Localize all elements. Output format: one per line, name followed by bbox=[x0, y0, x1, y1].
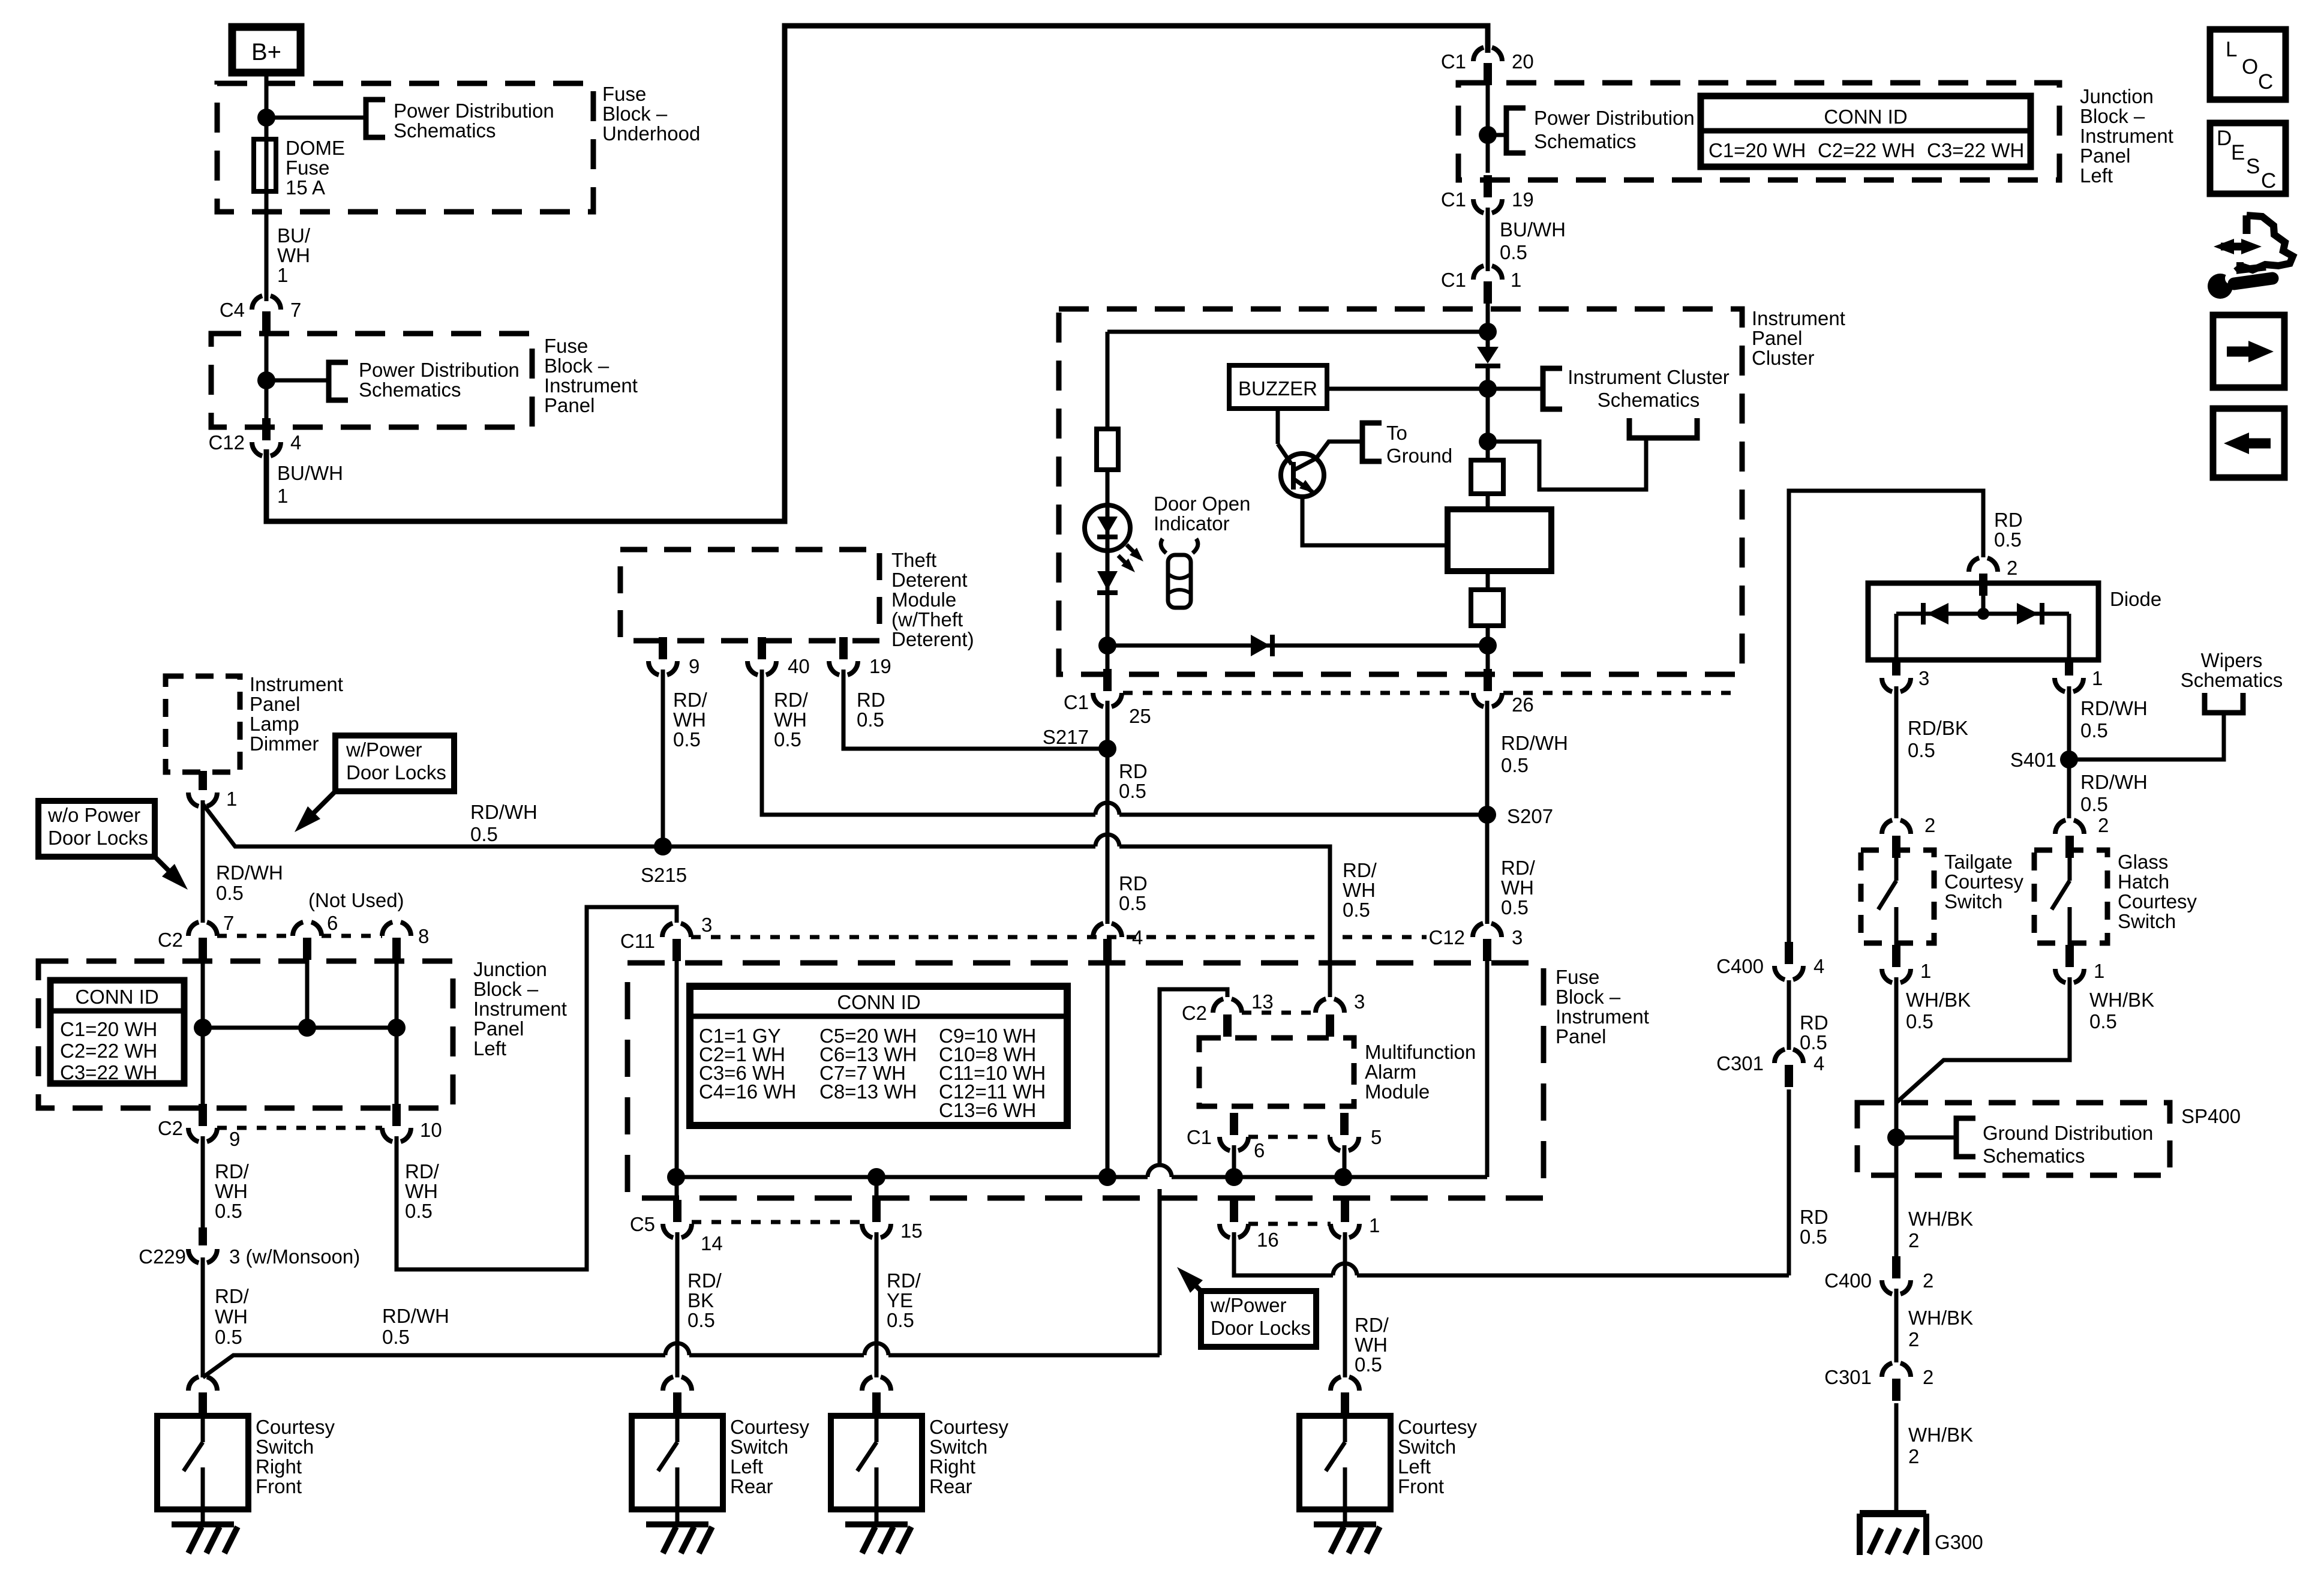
svg-text:C1=20 WH: C1=20 WH bbox=[1709, 139, 1806, 161]
connector pin 10 bbox=[382, 1128, 411, 1142]
svg-text:C3=22 WH: C3=22 WH bbox=[1927, 139, 2024, 161]
back arrow icon box bbox=[2213, 409, 2284, 478]
svg-text:C13=6 WH: C13=6 WH bbox=[939, 1099, 1036, 1121]
svg-text:C400: C400 bbox=[1824, 1269, 1872, 1292]
svg-text:19: 19 bbox=[869, 655, 891, 677]
svg-text:Switch: Switch bbox=[730, 1436, 788, 1458]
reference bracket instrument cluster schematics bbox=[1543, 368, 1562, 409]
svg-text:Junction: Junction bbox=[2080, 85, 2154, 107]
wire diode-3 to tailgate switch bbox=[1894, 686, 1899, 818]
wire hop over pin13 riser bbox=[1148, 1165, 1172, 1177]
callout w/o Power Door Locks bbox=[38, 801, 155, 857]
cluster bottom internal wire bbox=[1107, 644, 1488, 648]
svg-text:Dimmer: Dimmer bbox=[250, 733, 319, 755]
svg-text:Switch: Switch bbox=[929, 1436, 987, 1458]
svg-text:4: 4 bbox=[290, 431, 301, 454]
wire to power distribution reference bbox=[266, 116, 366, 120]
cluster main vertical wire bbox=[1486, 304, 1490, 347]
bracket under instrument cluster schematics bbox=[1629, 418, 1697, 438]
svg-text:Lamp: Lamp bbox=[250, 713, 299, 735]
connector pin 15 bbox=[862, 1224, 891, 1238]
svg-text:40: 40 bbox=[788, 655, 810, 677]
svg-text:Panel: Panel bbox=[1556, 1025, 1606, 1047]
svg-text:DOME: DOME bbox=[286, 137, 345, 159]
connector C1 pin 20 bbox=[1473, 47, 1502, 61]
svg-text:C2=22 WH: C2=22 WH bbox=[1818, 139, 1915, 161]
resistor square lower (cluster) bbox=[1471, 590, 1503, 626]
svg-text:WH: WH bbox=[1501, 876, 1534, 899]
svg-text:2: 2 bbox=[2007, 557, 2017, 579]
svg-text:RD/: RD/ bbox=[1355, 1314, 1389, 1336]
connector C400 pin 4 bbox=[1774, 966, 1803, 980]
svg-text:Door Locks: Door Locks bbox=[346, 761, 446, 784]
svg-text:1: 1 bbox=[2094, 960, 2104, 982]
svg-text:RD/WH: RD/WH bbox=[1501, 732, 1568, 754]
svg-text:Module: Module bbox=[891, 589, 956, 611]
wire row to pin 15 bbox=[875, 1177, 879, 1198]
svg-text:RD/: RD/ bbox=[405, 1160, 440, 1182]
battery feed B+ bbox=[232, 27, 301, 73]
callout w/Power Door Locks (left) bbox=[335, 736, 454, 791]
svg-text:BU/WH: BU/WH bbox=[1500, 218, 1566, 241]
svg-text:RD/: RD/ bbox=[215, 1160, 250, 1182]
svg-text:RD/: RD/ bbox=[687, 1269, 722, 1292]
svg-text:Block –: Block – bbox=[544, 355, 609, 377]
svg-text:0.5: 0.5 bbox=[1119, 780, 1146, 802]
svg-text:BU/WH: BU/WH bbox=[277, 462, 343, 484]
svg-text:16: 16 bbox=[1257, 1229, 1279, 1251]
svg-text:1: 1 bbox=[1920, 960, 1931, 982]
wire C11-3 down bbox=[675, 961, 679, 1198]
svg-text:Door Locks: Door Locks bbox=[48, 827, 148, 849]
junction in fuse block IP bbox=[257, 371, 275, 389]
connector row dotted 16-1 bbox=[1248, 1222, 1331, 1226]
svg-text:RD/WH: RD/WH bbox=[2080, 771, 2148, 793]
long RD/WH wire from dimmer to S215 and alarm module pin 3 bbox=[203, 804, 1095, 846]
junction to cluster schematics net bbox=[1479, 433, 1497, 451]
wire hop over right-rear drop bbox=[864, 1343, 888, 1355]
svg-text:S217: S217 bbox=[1043, 726, 1089, 748]
svg-text:C3=22 WH: C3=22 WH bbox=[60, 1061, 157, 1083]
svg-text:14: 14 bbox=[701, 1232, 723, 1254]
BUZZER box bbox=[1229, 365, 1327, 409]
arrowhead w/PDL right bbox=[1177, 1267, 1203, 1293]
resistor square upper (cluster) bbox=[1471, 460, 1503, 494]
svg-text:26: 26 bbox=[1512, 694, 1534, 716]
transistor (buzzer driver) bbox=[1276, 409, 1280, 444]
connector C2 pin 13 (module) bbox=[1213, 998, 1242, 1013]
svg-text:Fuse: Fuse bbox=[602, 83, 646, 105]
wire C1-25 to connector 4 bbox=[1106, 701, 1110, 924]
svg-text:WH: WH bbox=[673, 709, 706, 731]
svg-text:Block –: Block – bbox=[473, 978, 539, 1000]
svg-text:9: 9 bbox=[229, 1128, 240, 1150]
svg-text:Module: Module bbox=[1365, 1080, 1430, 1103]
svg-text:Courtesy: Courtesy bbox=[1398, 1416, 1478, 1438]
svg-text:3 (w/Monsoon): 3 (w/Monsoon) bbox=[229, 1245, 360, 1268]
svg-text:0.5: 0.5 bbox=[215, 1200, 242, 1222]
svg-text:WH: WH bbox=[774, 709, 807, 731]
connector glass hatch switch pin 2 bbox=[2055, 819, 2084, 834]
wire RD 0.5 riser to diode pin 2 bbox=[1789, 491, 1983, 942]
svg-text:WH/BK: WH/BK bbox=[1908, 1424, 1973, 1446]
svg-text:C1: C1 bbox=[1441, 50, 1466, 73]
diode assembly box bbox=[1868, 583, 2098, 660]
svg-text:CONN ID: CONN ID bbox=[75, 986, 158, 1008]
svg-text:6: 6 bbox=[1254, 1139, 1265, 1161]
connector C301 pin 2 bbox=[1882, 1362, 1911, 1377]
junction inside diode box bbox=[1977, 608, 1989, 620]
svg-text:4: 4 bbox=[1132, 926, 1143, 948]
svg-text:RD/WH: RD/WH bbox=[470, 801, 538, 823]
svg-text:15: 15 bbox=[900, 1220, 923, 1242]
svg-text:RD/: RD/ bbox=[673, 689, 708, 711]
svg-text:1: 1 bbox=[277, 264, 288, 286]
arrowhead w/PDL left bbox=[295, 806, 320, 832]
svg-text:3: 3 bbox=[1512, 926, 1523, 948]
svg-text:C229: C229 bbox=[139, 1245, 186, 1268]
junction pin15 / row bbox=[867, 1168, 885, 1186]
svg-text:RD: RD bbox=[1119, 872, 1148, 894]
svg-text:7: 7 bbox=[290, 299, 301, 321]
junction cluster top bbox=[1479, 323, 1497, 341]
svg-text:3: 3 bbox=[1354, 990, 1365, 1013]
connector C229 pin 3 bbox=[188, 1249, 217, 1263]
connector pin 9 (theft module) bbox=[648, 661, 677, 676]
svg-text:C12: C12 bbox=[1428, 926, 1465, 948]
svg-text:0.5: 0.5 bbox=[1994, 529, 2022, 551]
wire through fuse block IP bbox=[265, 334, 269, 427]
svg-text:D: D bbox=[2217, 127, 2232, 150]
svg-text:0.5: 0.5 bbox=[1800, 1226, 1827, 1248]
svg-text:WH: WH bbox=[1343, 879, 1376, 901]
connector row dotted line 7-6 bbox=[217, 934, 293, 938]
svg-text:1: 1 bbox=[1369, 1214, 1380, 1236]
connector row dotted line 6-8 bbox=[322, 934, 382, 938]
splice S207 bbox=[1478, 806, 1496, 824]
CONN ID table (fuse block) bbox=[690, 986, 1067, 1125]
svg-text:WH/BK: WH/BK bbox=[1908, 1208, 1973, 1230]
courtesy switch right front bbox=[157, 1416, 248, 1509]
wire SP400 to C400-2 bbox=[1894, 1175, 1899, 1257]
connector C1 pin 26 bbox=[1473, 693, 1502, 707]
connector glass hatch switch pin 1 bbox=[2055, 969, 2084, 983]
svg-text:Left: Left bbox=[1398, 1455, 1431, 1478]
svg-text:3: 3 bbox=[701, 914, 712, 936]
wire transistor collector bbox=[1302, 497, 1448, 545]
svg-text:25: 25 bbox=[1129, 705, 1151, 727]
connector C1 pin 6 (module) bbox=[1220, 1137, 1248, 1151]
wire C12-3 down bbox=[1485, 961, 1490, 1177]
svg-text:Instrument: Instrument bbox=[1752, 307, 1845, 329]
connector courtesy switch left front bbox=[1331, 1376, 1359, 1391]
svg-text:4: 4 bbox=[1813, 955, 1824, 977]
svg-text:CONN ID: CONN ID bbox=[837, 991, 920, 1013]
wire BU/WH 0.5 bbox=[1486, 208, 1490, 271]
diode (cluster bottom, pointing right) bbox=[1251, 635, 1270, 656]
wire RD/WH pin40 to S207 (right) bbox=[1119, 813, 1487, 817]
connector C2 pin 8 bbox=[382, 921, 411, 936]
wire RD/WH pin9 to S215 bbox=[661, 670, 665, 846]
svg-text:Instrument: Instrument bbox=[473, 998, 567, 1020]
svg-text:To: To bbox=[1386, 422, 1407, 444]
wire RD between C301-4 and C400-4 bbox=[1787, 980, 1791, 1050]
svg-text:WH: WH bbox=[1355, 1334, 1388, 1356]
svg-text:0.5: 0.5 bbox=[1501, 754, 1529, 776]
wire to ground distribution ref bbox=[1896, 1136, 1954, 1140]
svg-text:0.5: 0.5 bbox=[673, 728, 701, 751]
svg-text:Left: Left bbox=[730, 1455, 763, 1478]
svg-text:Deterent): Deterent) bbox=[891, 628, 974, 650]
connector pin 1 (dimmer) bbox=[188, 792, 217, 807]
svg-text:0.5: 0.5 bbox=[1500, 241, 1527, 263]
svg-text:0.5: 0.5 bbox=[887, 1309, 914, 1331]
junction in junction block IP left bbox=[1479, 126, 1497, 144]
svg-text:Indicator: Indicator bbox=[1154, 512, 1230, 535]
svg-text:2: 2 bbox=[1923, 1269, 1933, 1292]
svg-text:Schematics: Schematics bbox=[1534, 130, 1637, 152]
svg-text:WH/BK: WH/BK bbox=[2089, 989, 2154, 1011]
svg-text:2: 2 bbox=[1924, 814, 1935, 836]
svg-text:7: 7 bbox=[223, 912, 234, 934]
connector courtesy switch right front bbox=[188, 1376, 217, 1391]
fuse block instrument panel (main) box bbox=[627, 963, 1544, 1198]
svg-text:L: L bbox=[2226, 38, 2237, 61]
svg-text:Glass: Glass bbox=[2118, 851, 2168, 873]
svg-text:Block –: Block – bbox=[602, 103, 668, 125]
svg-text:G300: G300 bbox=[1935, 1531, 1983, 1553]
diode (cluster top) bbox=[1477, 347, 1499, 364]
svg-text:Courtesy: Courtesy bbox=[730, 1416, 810, 1438]
junction cluster bottom right bbox=[1479, 637, 1497, 655]
wire hop over C1-25 branch (S215 line) bbox=[1095, 834, 1119, 846]
svg-text:10: 10 bbox=[420, 1119, 442, 1141]
svg-text:2: 2 bbox=[1908, 1445, 1919, 1467]
svg-text:20: 20 bbox=[1512, 50, 1534, 73]
svg-text:BK: BK bbox=[687, 1289, 714, 1311]
svg-text:Tailgate: Tailgate bbox=[1944, 851, 2013, 873]
ground G300 bbox=[1860, 1510, 1926, 1517]
wire riser to diode assembly bbox=[1787, 1089, 1791, 1275]
svg-text:C301: C301 bbox=[1716, 1052, 1764, 1074]
wire pin1 to courtesy switch left front bbox=[1343, 1232, 1347, 1377]
wire S215 line to alarm module pin 3 bbox=[1119, 846, 1330, 997]
wire to instrument cluster schematics bbox=[1488, 387, 1541, 391]
svg-text:C4: C4 bbox=[220, 299, 245, 321]
svg-text:C4=16 WH: C4=16 WH bbox=[699, 1080, 796, 1103]
connector C2 pin 7 bbox=[188, 921, 217, 936]
svg-text:Wipers: Wipers bbox=[2201, 649, 2263, 671]
svg-text:RD: RD bbox=[1800, 1011, 1828, 1034]
svg-text:2: 2 bbox=[1908, 1229, 1919, 1251]
splice S401 bbox=[2060, 751, 2078, 769]
connector row dotted line 9-10 bbox=[217, 1126, 382, 1130]
CONN ID table (junction block lower) bbox=[50, 980, 184, 1083]
splice package SP400 box bbox=[1857, 1103, 2170, 1175]
LED arrows bbox=[1127, 545, 1140, 558]
connector pin 19 (theft module) bbox=[829, 661, 858, 676]
svg-text:Switch: Switch bbox=[2118, 910, 2176, 932]
svg-text:BU/: BU/ bbox=[277, 224, 311, 247]
reference bracket to ground bbox=[1362, 423, 1382, 461]
wire hop over C1-25 branch bbox=[1095, 803, 1119, 815]
svg-text:Fuse: Fuse bbox=[1556, 966, 1599, 988]
connector row C11-3 / 4 / C12-3 (dotted) bbox=[691, 935, 1317, 939]
connector C301 pin 4 bbox=[1774, 1049, 1803, 1063]
connector courtesy switch right rear bbox=[862, 1376, 891, 1391]
CONN ID table (junction block) bbox=[1701, 96, 2031, 167]
forward arrow icon box bbox=[2213, 315, 2284, 388]
junction pin4 / row bbox=[1098, 1168, 1116, 1186]
svg-text:Schematics: Schematics bbox=[1598, 389, 1700, 411]
svg-text:Schematics: Schematics bbox=[2181, 669, 2283, 691]
svg-text:C12: C12 bbox=[208, 431, 245, 454]
instrument panel lamp dimmer box bbox=[166, 676, 240, 772]
svg-text:0.5: 0.5 bbox=[1908, 739, 1935, 761]
svg-text:WH: WH bbox=[215, 1180, 248, 1202]
relay rectangle (cluster) bbox=[1448, 509, 1551, 571]
svg-text:C301: C301 bbox=[1824, 1366, 1872, 1388]
wire pin5 to splice row bbox=[1343, 1145, 1347, 1177]
fuse block instrument panel box bbox=[211, 334, 532, 427]
svg-text:0.5: 0.5 bbox=[405, 1200, 433, 1222]
svg-text:Instrument: Instrument bbox=[544, 374, 638, 397]
fuse block underhood box bbox=[217, 83, 593, 212]
wire glass hatch joining tailgate wire bbox=[1896, 977, 2070, 1103]
wire C1-26 to connector C12-3 bbox=[1485, 701, 1490, 924]
svg-text:0.5: 0.5 bbox=[2080, 719, 2108, 742]
wire S401 to wipers schematics bbox=[2069, 713, 2224, 760]
reference bracket power distribution (underhood) bbox=[366, 100, 385, 137]
svg-text:WH/BK: WH/BK bbox=[1908, 1307, 1973, 1329]
svg-text:0.5: 0.5 bbox=[687, 1309, 715, 1331]
svg-text:Door Open: Door Open bbox=[1154, 493, 1250, 515]
junction cluster bottom left bbox=[1098, 637, 1116, 655]
junction SP400 bbox=[1887, 1128, 1905, 1146]
junction block internal wires bbox=[201, 960, 205, 1106]
junction pin5 / row bbox=[1334, 1168, 1352, 1186]
svg-text:BUZZER: BUZZER bbox=[1238, 377, 1317, 400]
svg-text:C1: C1 bbox=[1441, 269, 1466, 291]
connector C4 pin 7 bbox=[252, 295, 281, 310]
svg-text:Panel: Panel bbox=[250, 693, 300, 715]
connector C400 pin 2 bbox=[1882, 1280, 1911, 1295]
svg-text:S215: S215 bbox=[641, 864, 687, 886]
junction block instrument panel left (lower) box bbox=[38, 961, 453, 1108]
svg-text:Instrument: Instrument bbox=[250, 673, 343, 695]
callout w/Power Door Locks (right) bbox=[1201, 1291, 1316, 1347]
svg-text:15 A: 15 A bbox=[286, 176, 325, 199]
svg-text:O: O bbox=[2242, 55, 2258, 79]
svg-text:WH: WH bbox=[277, 244, 310, 266]
wire pin6 to splice row bbox=[1232, 1145, 1236, 1177]
svg-text:S207: S207 bbox=[1507, 805, 1553, 827]
splice S217 bbox=[1098, 740, 1116, 758]
wire buzzer to main bbox=[1327, 387, 1488, 391]
connector pin 5 (module) bbox=[1330, 1137, 1359, 1151]
wire pin14 to courtesy switch left rear bbox=[675, 1232, 680, 1377]
svg-text:CONN ID: CONN ID bbox=[1824, 106, 1907, 128]
svg-text:2: 2 bbox=[1908, 1328, 1919, 1350]
connector C1 pin 25 bbox=[1093, 693, 1122, 707]
svg-text:RD/: RD/ bbox=[887, 1269, 921, 1292]
svg-text:Rear: Rear bbox=[730, 1475, 773, 1497]
svg-text:Ground: Ground bbox=[1386, 445, 1452, 467]
left diode (cathode toward center) bbox=[1927, 603, 1948, 625]
wire hop over pin1 wire bbox=[1333, 1263, 1357, 1275]
wire pin15 to courtesy switch right rear bbox=[875, 1232, 879, 1377]
svg-text:Panel: Panel bbox=[473, 1017, 524, 1040]
junction JB internal mid bbox=[298, 1019, 316, 1037]
DESC icon box bbox=[2210, 123, 2286, 194]
svg-text:Left: Left bbox=[473, 1037, 506, 1059]
svg-text:Ground Distribution: Ground Distribution bbox=[1983, 1122, 2153, 1144]
wire pin16 to right riser bbox=[1234, 1232, 1333, 1275]
connector C1 pin 1 bbox=[1473, 265, 1502, 280]
svg-text:WH: WH bbox=[405, 1180, 438, 1202]
connector C12 pin 4 bbox=[252, 442, 281, 457]
svg-text:4: 4 bbox=[1813, 1052, 1824, 1074]
connector C2 pin 6 bbox=[293, 921, 322, 936]
svg-text:WH: WH bbox=[215, 1305, 248, 1328]
svg-text:E: E bbox=[2231, 141, 2245, 164]
svg-text:C1: C1 bbox=[1187, 1126, 1212, 1148]
svg-text:0.5: 0.5 bbox=[857, 709, 884, 731]
svg-text:RD/WH: RD/WH bbox=[216, 861, 283, 884]
diode below LED bbox=[1097, 571, 1118, 590]
svg-text:0.5: 0.5 bbox=[1355, 1353, 1382, 1376]
svg-text:RD: RD bbox=[857, 689, 885, 711]
connector diode pin 2 bbox=[1969, 557, 1998, 572]
svg-text:9: 9 bbox=[689, 655, 699, 677]
svg-text:Right: Right bbox=[256, 1455, 302, 1478]
svg-text:Switch: Switch bbox=[1944, 890, 2002, 912]
courtesy switch left rear bbox=[632, 1416, 723, 1509]
wire pin9 to C229 bbox=[201, 1136, 205, 1230]
svg-text:13: 13 bbox=[1251, 990, 1274, 1013]
junction block instrument panel left box bbox=[1458, 83, 2059, 180]
connector pin 3 (module) bbox=[1316, 998, 1344, 1013]
svg-text:0.5: 0.5 bbox=[1343, 899, 1370, 921]
svg-text:0.5: 0.5 bbox=[215, 1326, 242, 1348]
svg-text:RD: RD bbox=[1119, 760, 1148, 782]
svg-text:(w/Theft: (w/Theft bbox=[891, 608, 963, 631]
svg-text:0.5: 0.5 bbox=[470, 823, 498, 845]
junction JB internal right bbox=[388, 1019, 406, 1037]
connector pin 40 (theft module) bbox=[747, 661, 776, 676]
svg-text:Block –: Block – bbox=[2080, 105, 2145, 127]
svg-text:RD: RD bbox=[1994, 509, 2023, 531]
junction C11-3 / row bbox=[667, 1168, 685, 1186]
svg-text:0.5: 0.5 bbox=[2080, 793, 2108, 815]
wire RD/WH pin40 to S207 bbox=[762, 670, 1095, 815]
svg-text:Junction: Junction bbox=[473, 958, 547, 980]
svg-text:Door Locks: Door Locks bbox=[1211, 1317, 1311, 1339]
svg-text:w/Power: w/Power bbox=[346, 739, 422, 761]
svg-text:Cluster: Cluster bbox=[1752, 347, 1815, 369]
svg-text:RD/: RD/ bbox=[1501, 857, 1536, 879]
svg-text:0.5: 0.5 bbox=[2089, 1010, 2117, 1032]
junction buzzer node bbox=[1479, 380, 1497, 398]
svg-text:Schematics: Schematics bbox=[1983, 1145, 2085, 1167]
instrument panel cluster box bbox=[1059, 309, 1742, 674]
connector diode pin 3 bbox=[1882, 678, 1911, 692]
wire junction to schematics bracket bbox=[1488, 438, 1646, 490]
car icon bbox=[1168, 555, 1191, 608]
connector row dotted 6-5 bbox=[1248, 1135, 1330, 1139]
svg-text:5: 5 bbox=[1371, 1126, 1382, 1148]
svg-text:Panel: Panel bbox=[2080, 145, 2130, 167]
